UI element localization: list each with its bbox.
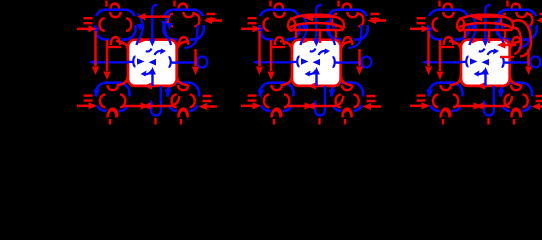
panel 2: spin network with merged top legs bbox=[241, 1, 386, 125]
central intertwiner square (white fill) bbox=[461, 40, 510, 86]
red strand cup S (straddles bottom edge) bbox=[179, 37, 188, 45]
blue strand from TR bottom into square NE bbox=[349, 25, 362, 48]
red strand cup W bbox=[100, 18, 105, 31]
blue right connector with end loop bbox=[341, 61, 362, 63]
red strand into square right edge panel3 bbox=[505, 44, 516, 47]
red arrowhead on lens p3 bbox=[474, 15, 482, 22]
blue left connector arrow bbox=[97, 61, 129, 63]
red strand cup S (straddles bottom edge) bbox=[444, 37, 453, 45]
blue strand S left mirror bbox=[470, 14, 476, 45]
red strand cup E bbox=[354, 95, 359, 108]
red ring arc square TL corner bbox=[116, 41, 128, 53]
red external leg dashes BL-W bbox=[84, 96, 93, 101]
central intertwiner square (white fill) bbox=[292, 40, 341, 86]
red external leg dashes TL-W bbox=[84, 18, 93, 23]
red entry arrow TR-E bbox=[211, 19, 222, 22]
red strand cup E bbox=[190, 95, 195, 108]
blob outline (LB) bbox=[96, 83, 130, 111]
blue strand rising inside square bottom bbox=[151, 74, 153, 86]
red arrowhead on square bottom edge bbox=[144, 82, 153, 89]
red entry arrow TR-E bbox=[375, 19, 386, 22]
red ring arc square BL corner bbox=[117, 74, 129, 86]
lens end curls p2 bbox=[288, 21, 344, 30]
red entry arrow TL-W bbox=[241, 28, 253, 31]
red ring arc square TR corner bbox=[510, 41, 522, 53]
blue left connector arrow bbox=[261, 61, 293, 63]
red arrowhead on lens p2 bbox=[305, 15, 313, 22]
blob outline (LB) bbox=[429, 83, 463, 111]
red leg cap + stub BR-S bbox=[512, 110, 521, 118]
red strand cup S (straddles bottom edge) bbox=[108, 109, 117, 117]
red entry arrow BL-W bbox=[410, 105, 422, 108]
blob outline (RB) bbox=[331, 83, 363, 111]
red strand cup E bbox=[453, 95, 458, 108]
blue curl after top connector head bbox=[479, 49, 485, 52]
red link from left strand to square bbox=[270, 46, 285, 48]
red entry arrow BL-W bbox=[77, 105, 89, 108]
blue strand rising inside square bottom bbox=[315, 74, 317, 86]
red strand cup W bbox=[501, 14, 506, 27]
lens end curls p3 bbox=[457, 21, 513, 30]
red merged-leg lens p2 base line bbox=[289, 29, 343, 32]
blue hook NE inside square bbox=[319, 51, 329, 55]
red strand cup W bbox=[172, 95, 177, 108]
blue strand S from TR inner top bbox=[329, 14, 335, 45]
red entry arrow BL-W bbox=[241, 105, 253, 108]
red ring arc square BL corner bbox=[281, 74, 293, 86]
blue strand S from TR inner top bbox=[165, 14, 171, 45]
red leg stub + cap TL-N bbox=[269, 1, 271, 7]
blue strand arrowhead near blob left edge bbox=[161, 21, 167, 28]
red strand cup N bbox=[443, 12, 453, 17]
blue strand rising inside square bottom bbox=[484, 74, 486, 86]
red strand cup W bbox=[505, 95, 510, 108]
blue hook NE inside square bbox=[155, 51, 165, 55]
red external leg dashes TL-W bbox=[417, 18, 426, 23]
red merged-leg lens p2 outer arc bbox=[289, 15, 343, 21]
blue top connector into square bbox=[316, 5, 321, 40]
red bottom lattice arrow pair bbox=[286, 105, 334, 108]
red vertical strand right column bbox=[358, 49, 361, 66]
red strand cup N bbox=[272, 85, 282, 90]
red strand cup N bbox=[110, 12, 120, 17]
red left edge strand bbox=[427, 31, 430, 66]
red entry arrow BR-E bbox=[370, 105, 381, 108]
red external leg dashes BR-E bbox=[203, 96, 212, 101]
red strand cup E bbox=[284, 95, 289, 108]
red strand cup N bbox=[342, 85, 352, 90]
blue hook SW inside square bbox=[143, 70, 153, 74]
blue strand entering square from left bbox=[292, 61, 298, 64]
red merged-leg lens p2 middle arc bbox=[290, 23, 342, 28]
blue strand S left mirror bbox=[137, 14, 143, 45]
red arrowhead on square top edge bbox=[139, 36, 148, 43]
red top lattice arrow bbox=[305, 15, 334, 18]
red leg stub bottom-center bbox=[487, 118, 489, 125]
red left edge strand bbox=[258, 31, 261, 66]
red strand cup S (straddles bottom edge) bbox=[512, 109, 521, 117]
red leg stub bottom-center bbox=[154, 118, 156, 125]
red vertical strand right column bbox=[527, 49, 530, 66]
red vertical strand left column bbox=[439, 40, 442, 71]
blue strand arrowhead on blob left edge bbox=[93, 28, 100, 36]
blob outline (RT) bbox=[328, 10, 368, 40]
red entry arrow TL-W bbox=[410, 28, 422, 31]
red link from left strand to square bbox=[106, 46, 121, 48]
red bottom lattice arrow pair bbox=[122, 105, 170, 108]
red link from left strand to square bbox=[439, 46, 454, 48]
blue strand entering square from left bbox=[128, 61, 134, 64]
red left edge strand bbox=[94, 31, 97, 66]
blue left connector arrow bbox=[430, 61, 462, 63]
blue strand arrowhead on blob left edge bbox=[329, 90, 336, 98]
blue right connector with end loop bbox=[177, 61, 198, 63]
red vertical strand left column bbox=[106, 40, 109, 71]
red strand cup N bbox=[178, 85, 188, 90]
red drop strand panel3 center bbox=[488, 30, 491, 43]
red leg cap + stub BL-S bbox=[272, 110, 281, 118]
red strand cup W bbox=[264, 95, 269, 108]
red leg cap + stub BR-S bbox=[343, 110, 352, 118]
red strand cup W bbox=[100, 95, 105, 108]
red rerouted strand panel3 outer bbox=[512, 20, 531, 56]
blob outline (RB) bbox=[167, 83, 199, 111]
red vertical strand right column bbox=[194, 49, 197, 66]
red ring arc square BR corner bbox=[177, 74, 188, 86]
blue bottom connector U bbox=[151, 86, 161, 116]
blue bottom connector U bbox=[484, 86, 494, 116]
red strand cup E bbox=[194, 14, 199, 27]
red strand cup S (straddles bottom edge) bbox=[272, 109, 281, 117]
red strand cup E bbox=[523, 95, 528, 108]
blue strand arrowhead near blob left edge bbox=[494, 21, 500, 28]
red arrowhead on square top edge bbox=[472, 36, 481, 43]
red external leg dashes TR-E bbox=[540, 14, 542, 19]
red strand cup W bbox=[433, 18, 438, 31]
red external leg dashes BR-E bbox=[536, 96, 542, 101]
blue strand S left mirror bbox=[301, 14, 307, 45]
panel 3: spin network with legs rerouted into intertwiner bbox=[410, 1, 542, 125]
blue strand entering square from right bbox=[503, 61, 510, 64]
blue right connector with end loop bbox=[510, 61, 531, 63]
red drop strand panel2 center bbox=[319, 30, 322, 43]
red ring arc square TL corner bbox=[449, 41, 461, 53]
blue strand entering square from right bbox=[334, 61, 341, 64]
blue curl after top connector head bbox=[310, 49, 316, 52]
red vertical strand left column bbox=[270, 40, 273, 71]
red strand cup N bbox=[516, 12, 526, 17]
red arrowhead on square bottom edge bbox=[477, 82, 486, 89]
red merged-leg lens p3 base line bbox=[458, 29, 512, 32]
red top lattice arrow bbox=[141, 15, 170, 18]
red leg cap + stub BL-S bbox=[441, 110, 450, 118]
red strand cup N bbox=[183, 12, 193, 17]
blob outline (LT) bbox=[95, 10, 135, 40]
red leg stub + cap TR-N bbox=[173, 1, 175, 7]
red strand cup E bbox=[290, 18, 295, 31]
red leg cap + stub BR-S bbox=[179, 110, 188, 118]
blue strand from TR bottom into square NE bbox=[185, 25, 198, 48]
red external leg dashes TR-E bbox=[207, 14, 216, 19]
red strand cup N bbox=[274, 12, 284, 17]
blue top connector into square bbox=[485, 5, 490, 40]
red ring arc square BR corner bbox=[341, 74, 352, 86]
red merged-leg lens p3 middle arc bbox=[459, 23, 511, 28]
blue strand arrowhead on blob left edge bbox=[426, 28, 433, 36]
red leg stub + cap TR-N bbox=[506, 1, 508, 7]
blue curl after top connector head bbox=[146, 49, 152, 52]
red ring arc square TL corner bbox=[280, 41, 292, 53]
red entry arrow BR-E bbox=[206, 105, 217, 108]
blob outline (RB) bbox=[500, 83, 532, 111]
red arrowhead on square bottom edge bbox=[308, 82, 317, 89]
red leg stub bottom-center bbox=[318, 118, 320, 125]
blue hook SW inside square bbox=[476, 70, 486, 74]
red external leg dashes BL-W bbox=[248, 96, 257, 101]
blue strand arrowhead on blob left edge bbox=[257, 90, 264, 98]
red ring arc square BL corner bbox=[450, 74, 462, 86]
red leg stub + cap TL-N bbox=[105, 1, 107, 7]
blob outline (RT) bbox=[497, 10, 537, 40]
red external leg dashes BL-W bbox=[417, 96, 426, 101]
blue strand arrowhead on blob left edge bbox=[426, 90, 433, 98]
red strand cup S (straddles bottom edge) bbox=[441, 109, 450, 117]
blue bottom connector U bbox=[315, 86, 325, 116]
blue strand entering square from left bbox=[461, 61, 467, 64]
red bottom lattice arrow pair bbox=[455, 105, 503, 108]
red rerouted strand panel3 inner bbox=[511, 28, 521, 54]
blue strand arrowhead on blob left edge bbox=[165, 90, 172, 98]
red strand cup S (straddles bottom edge) bbox=[179, 109, 188, 117]
blue hook SW inside square bbox=[307, 70, 317, 74]
red strand cup E bbox=[126, 18, 131, 31]
red leg stub + cap TL-N bbox=[438, 1, 440, 7]
blue strand from TR bottom into square NE bbox=[518, 25, 531, 48]
red entry arrow TL-W bbox=[77, 28, 89, 31]
red strand cup S (straddles bottom edge) bbox=[111, 37, 120, 45]
red strand cup E bbox=[459, 18, 464, 31]
red side drops of lens p3 bbox=[465, 30, 505, 38]
blue strand arrowhead near blob left edge bbox=[325, 21, 331, 28]
blob outline (RT) bbox=[164, 10, 204, 40]
red strand cup N bbox=[511, 85, 521, 90]
red arrowhead on square top edge bbox=[303, 36, 312, 43]
blue hook NE inside square bbox=[488, 51, 498, 55]
red ring arc square TR corner bbox=[177, 41, 189, 53]
panel 1: spin network before coarse graining bbox=[77, 1, 222, 125]
red lower strand panel3 bbox=[500, 56, 514, 58]
blue strand arrowhead on blob left edge bbox=[498, 90, 505, 98]
red strand cup E bbox=[120, 95, 125, 108]
red leg stub + cap TR-N bbox=[337, 1, 339, 7]
red strand cup S (straddles bottom edge) bbox=[275, 37, 284, 45]
red entry arrow BR-E bbox=[539, 105, 542, 108]
red strand cup S (straddles bottom edge) bbox=[512, 37, 521, 45]
red side drops of lens p2 bbox=[296, 30, 336, 38]
central intertwiner square (white fill) bbox=[128, 40, 177, 86]
red external leg dashes BR-E bbox=[367, 96, 376, 101]
red merged-leg lens p3 outer arc bbox=[458, 15, 512, 21]
blue strand arrowhead on blob left edge bbox=[93, 90, 100, 98]
red ring arc square BR corner bbox=[510, 74, 521, 86]
blue strand arrowhead on blob left edge bbox=[257, 28, 264, 36]
red strand cup N bbox=[108, 85, 118, 90]
red strand cup E bbox=[527, 14, 532, 27]
red strand cup S (straddles bottom edge) bbox=[343, 37, 352, 45]
blue strand S from TR inner top bbox=[498, 14, 504, 45]
red strand cup E bbox=[358, 14, 363, 27]
blob outline (LB) bbox=[260, 83, 294, 111]
red strand cup W bbox=[433, 95, 438, 108]
red strand cup N bbox=[441, 85, 451, 90]
red external leg dashes TR-E bbox=[371, 14, 380, 19]
blue strand entering square from right bbox=[170, 61, 177, 64]
red strand cup W bbox=[332, 14, 337, 27]
red ring arc square TR corner bbox=[341, 41, 353, 53]
red strand cup N bbox=[347, 12, 357, 17]
red strand cup S (straddles bottom edge) bbox=[343, 109, 352, 117]
blue top connector into square bbox=[152, 5, 157, 40]
red external leg dashes TL-W bbox=[248, 18, 257, 23]
red strand cup W bbox=[264, 18, 269, 31]
blob outline (LT) bbox=[428, 10, 468, 40]
red top lattice arrow bbox=[474, 15, 503, 18]
red leg cap + stub BL-S bbox=[108, 110, 117, 118]
blob outline (LT) bbox=[259, 10, 299, 40]
red strand cup W bbox=[336, 95, 341, 108]
red strand cup W bbox=[168, 14, 173, 27]
